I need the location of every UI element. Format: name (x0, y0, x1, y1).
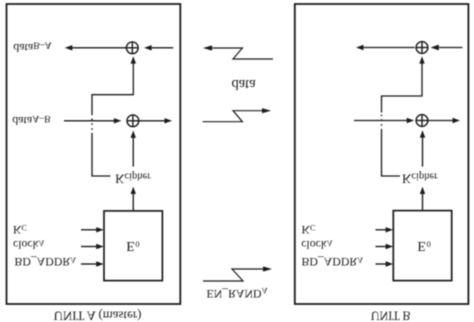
wire: clock_A input (unit B) (376, 244, 394, 249)
UNIT B enclosure box (295, 4, 469, 304)
wire: xor X1 output data B-A (unit A) (65, 45, 127, 50)
wire: keystream branch jog (unit B) (382, 56, 425, 176)
xor adder X4 (unit B) (416, 115, 428, 127)
wire: keystream branch jog (unit A) (92, 56, 136, 176)
wire: BD_ADDR_A input (unit B) (376, 261, 394, 266)
wire: xor X2 output to channel (unit A) (139, 118, 172, 123)
xor adder X1 (unit A) (126, 42, 138, 54)
wire: channel data into xor X4 (unit B) (354, 118, 414, 123)
zigzag wireless link: data A to B (203, 108, 271, 122)
zigzag wireless link: data B to A (203, 45, 273, 59)
UNIT A enclosure box (7, 4, 181, 304)
wire: channel data into xor X3 (unit B) (431, 45, 463, 51)
wire: clock_A input (unit A) (81, 244, 104, 249)
zigzag wireless link: EN_RAND A to B (203, 266, 272, 281)
wire: BD_ADDR_A input (unit A) (81, 261, 104, 266)
wire: K_cipher stream out of E0 (unit B) (420, 187, 425, 211)
wire: channel data into xor X1 (unit A) (144, 45, 173, 50)
svg-text:BD_ADDRA: BD_ADDRA (15, 255, 77, 269)
xor adder X2 (unit A) (127, 115, 139, 127)
svg-text:EN_RANDA: EN_RANDA (207, 286, 268, 301)
wire: data A-B into xor X2 (unit A) (64, 118, 121, 123)
wire: xor X3 output data B-A (unit B) (356, 45, 415, 50)
xor adder X3 (unit B) (416, 42, 428, 54)
wire: K_cipher into xor X4 (unit B) (420, 130, 425, 166)
wire: xor X4 output (unit B) (428, 118, 460, 123)
wire: K_cipher stream out of E0 (unit A) (131, 187, 136, 211)
wire: K_cipher into xor X2 (unit A) (131, 131, 136, 167)
svg-text:UNIT B: UNIT B (371, 309, 411, 322)
E0 cipher block U2 (unit B) (393, 211, 451, 281)
svg-text:UNIT A (master): UNIT A (master) (54, 309, 142, 322)
svg-text:BD_ADDRA: BD_ADDRA (302, 255, 364, 269)
E0 cipher block U1 (unit A) (104, 211, 162, 281)
wire: K_C input (unit A) (81, 227, 104, 232)
svg-text:data: data (232, 76, 257, 92)
wire: K_C input (unit B) (376, 227, 394, 232)
